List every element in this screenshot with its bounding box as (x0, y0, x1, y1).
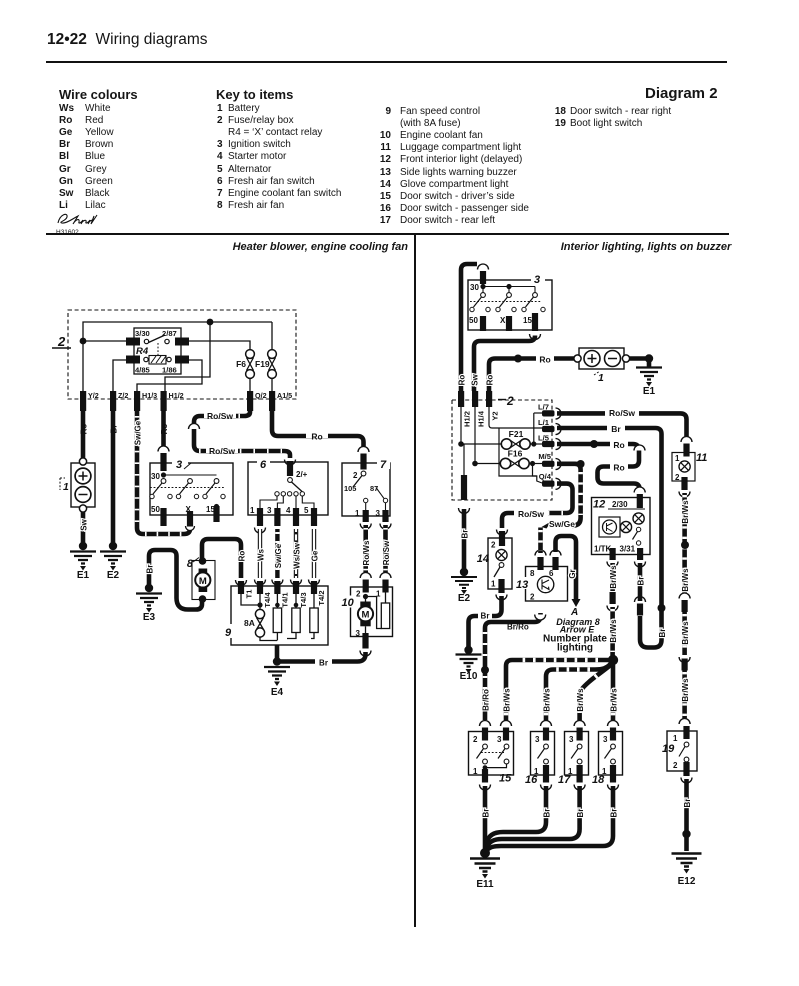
fresh air fan switch 6 (248, 457, 328, 515)
svg-text:F16: F16 (508, 449, 523, 459)
svg-text:6: 6 (260, 459, 267, 471)
svg-text:11: 11 (696, 452, 707, 464)
wire Br/Ws: lamp 11 to switch 19 (679, 477, 690, 724)
svg-text:3/31: 3/31 (620, 545, 636, 554)
svg-text:4: 4 (286, 506, 291, 515)
wire Br: switch 17 to E11 (487, 786, 585, 847)
wire Br/Ws: junction to switch 16-3 (541, 661, 614, 741)
svg-text:X: X (500, 316, 506, 325)
svg-text:13: 13 (516, 579, 528, 591)
svg-text:T4/3: T4/3 (299, 592, 308, 607)
svg-text:Ws: Ws (257, 548, 266, 561)
ignition switch 3 (150, 457, 233, 515)
svg-text:18: 18 (592, 774, 605, 786)
svg-text:17: 17 (558, 774, 571, 786)
wire Ro: A1/5 to coolant fan switch 7 (272, 411, 369, 470)
svg-text:Ro: Ro (613, 440, 624, 450)
svg-text:2/87: 2/87 (162, 329, 177, 338)
svg-text:3: 3 (497, 735, 502, 744)
page header (47, 31, 208, 49)
fuse F6 (236, 350, 254, 391)
svg-text:Br/Ws: Br/Ws (503, 688, 512, 712)
ground E2 (100, 542, 126, 581)
svg-text:L/1: L/1 (538, 418, 550, 427)
connector H1/4 (472, 391, 486, 427)
svg-text:1: 1 (598, 372, 604, 384)
connector M/5 (538, 452, 561, 470)
svg-text:2: 2 (673, 761, 678, 770)
svg-text:2: 2 (506, 394, 514, 408)
connector L/1 (538, 418, 561, 435)
terminal T4/1 (274, 581, 289, 608)
svg-text:2: 2 (491, 541, 496, 550)
wire Br: switch 15 to E11 (482, 786, 491, 851)
wire: L/7 L/1 L/5 bridge (531, 413, 542, 447)
svg-text:2/30: 2/30 (612, 500, 628, 509)
wire Sw: battery to E1 (80, 512, 89, 546)
svg-text:E1: E1 (643, 386, 656, 397)
wire Br/Ws: junction to switch 15-3 (501, 660, 614, 741)
svg-text:Br: Br (482, 809, 491, 818)
svg-text:3: 3 (569, 735, 574, 744)
svg-text:Ro: Ro (539, 355, 550, 365)
svg-text:E10: E10 (460, 671, 478, 682)
wire Sw: ignition 15 down (471, 334, 541, 391)
svg-text:2/+: 2/+ (296, 470, 308, 479)
svg-text:Br/Ws: Br/Ws (576, 688, 585, 712)
svg-text:50: 50 (151, 505, 160, 514)
svg-text:H1/4: H1/4 (477, 410, 486, 427)
svg-text:Br/Ro: Br/Ro (507, 623, 529, 632)
terminal 10-3 (360, 633, 371, 656)
svg-text:H1/2: H1/2 (169, 391, 184, 400)
fuse F21 (501, 429, 542, 449)
svg-text:Br: Br (610, 809, 619, 818)
svg-text:L/7: L/7 (538, 403, 549, 412)
svg-text:2: 2 (675, 473, 680, 482)
ground E11 (470, 848, 500, 890)
svg-text:Br/Ws: Br/Ws (681, 568, 690, 592)
connector L/5 (538, 434, 561, 450)
terminal 50 (right 3) (480, 316, 486, 331)
svg-text:50: 50 (469, 316, 478, 325)
svg-text:M/5: M/5 (538, 452, 551, 461)
connector Q/4 (539, 472, 561, 489)
svg-text:E2: E2 (458, 593, 471, 604)
battery 1 (right) (574, 348, 630, 384)
wire Ro: H1/2 to ignition 30 (158, 411, 169, 471)
svg-text:Y/2: Y/2 (88, 391, 99, 400)
terminal 12-1/TK (607, 548, 618, 567)
signature + code (54, 210, 114, 238)
svg-text:14: 14 (477, 553, 489, 565)
terminal 18-1 (608, 765, 619, 790)
ground E12 (672, 854, 702, 888)
fuse F16 (500, 449, 542, 477)
wire Br: 3/31 to loop (637, 563, 646, 601)
terminal T4/2 (311, 581, 326, 606)
terminal X (right 3) (506, 316, 512, 331)
svg-text:Ro: Ro (486, 375, 495, 386)
svg-text:15: 15 (499, 773, 512, 785)
ground E10 (456, 646, 482, 682)
wire Ro: feed to ignition 30 (458, 264, 489, 391)
svg-text:T4/4: T4/4 (263, 592, 272, 608)
wire Br: switch 19 to E12 (682, 779, 692, 851)
wire Sw/Ge: H1/3 to ignition X (134, 411, 195, 534)
svg-text:Br/Ws: Br/Ws (610, 688, 619, 712)
resistor pack in 9 (273, 594, 318, 641)
svg-text:30: 30 (151, 472, 160, 481)
svg-text:3: 3 (603, 735, 608, 744)
svg-text:Sw: Sw (80, 518, 89, 530)
terminal 13-6 (550, 550, 561, 570)
section frame (46, 233, 729, 235)
svg-text:1: 1 (673, 734, 678, 743)
svg-text:Q/2: Q/2 (255, 391, 267, 400)
terminal 15-1 (480, 769, 491, 790)
fan speed control 9 (224, 586, 328, 645)
svg-text:Br: Br (319, 659, 328, 668)
svg-text:Ro/Sw: Ro/Sw (382, 540, 391, 565)
svg-text:Ro: Ro (238, 551, 247, 562)
svg-text:Sw/Ge: Sw/Ge (274, 543, 283, 568)
luggage light 11 (672, 452, 707, 482)
svg-text:Gr: Gr (568, 569, 577, 578)
terminal 12-3/31 (635, 548, 646, 567)
fuse 8A (244, 609, 277, 640)
svg-text:Ro/Sw: Ro/Sw (609, 408, 635, 418)
ground E3 (136, 584, 162, 623)
svg-text:Br/Ws: Br/Ws (543, 688, 552, 712)
svg-text:1: 1 (491, 580, 496, 589)
wire Sw/Ge: switch 6-3 to T4/1 (272, 529, 283, 585)
wire Br/Ro: 13-2 to door switch 15 (480, 613, 546, 741)
ground E1 (right) (636, 354, 662, 397)
ground E4 (264, 657, 290, 698)
svg-text:A1/5: A1/5 (277, 391, 292, 400)
svg-text:Ro: Ro (311, 432, 322, 442)
terminal T4/3 (293, 581, 308, 608)
wire Br/Ws: 1/TK to junction (607, 563, 618, 656)
svg-text:30: 30 (470, 283, 479, 292)
ignition switch 3 (right) (468, 272, 552, 330)
svg-text:M: M (199, 576, 207, 587)
svg-text:2: 2 (356, 590, 361, 599)
svg-text:1: 1 (473, 767, 478, 776)
fuse/relay box 2 (right, dashed) (452, 400, 552, 500)
svg-text:2: 2 (353, 471, 358, 480)
terminal T4/4 (257, 581, 272, 608)
node: rail to H1/2 drop (165, 319, 213, 391)
fuse/relay box 2 (dashed enclosure) (68, 310, 296, 399)
svg-text:3: 3 (376, 509, 381, 518)
wire Br: L/1 long run to 3/31 loop (557, 424, 667, 648)
wire: battery to E1 (629, 356, 649, 361)
svg-text:15: 15 (523, 316, 532, 325)
terminal 14-1 (496, 579, 507, 600)
legend: wire colours (59, 87, 138, 102)
wire: relay 87 to fuse F6 (187, 341, 250, 350)
terminal 6-1 (257, 508, 263, 526)
wire Br/Ws: junction to switch 17-3 (574, 663, 613, 741)
wire Ro/Sw: switch 7-3 to fan 10 (380, 524, 391, 593)
svg-text:1: 1 (250, 506, 255, 515)
wire Ro/Sw: Q/4 to glove light 14 (497, 484, 573, 546)
svg-text:Br: Br (637, 577, 646, 586)
svg-text:Ro: Ro (80, 424, 89, 435)
svg-text:M: M (362, 610, 370, 621)
glove compartment light 14 (477, 538, 512, 589)
svg-text:1/TK: 1/TK (594, 545, 612, 554)
wire Br: switch 16 to E11 (487, 786, 552, 843)
svg-text:Sw: Sw (471, 373, 480, 385)
relay R4 (126, 328, 189, 375)
svg-text:3: 3 (535, 735, 540, 744)
svg-text:E11: E11 (476, 879, 494, 890)
svg-text:E12: E12 (678, 876, 696, 887)
wire Ro/Ws: switch 7-1 to fan 10 (360, 524, 371, 593)
svg-text:Br: Br (576, 809, 585, 818)
wire Ws/Sw: switch 6-4 to T4/3 (291, 529, 302, 585)
svg-text:Q/4: Q/4 (539, 472, 552, 481)
svg-text:T4/2: T4/2 (317, 590, 326, 605)
terminal 15 (213, 506, 219, 522)
coolant fan switch 7 (342, 458, 390, 518)
svg-text:12: 12 (593, 499, 605, 511)
door switch 17 (558, 732, 589, 787)
wire: relay 85 to Z/2 (113, 360, 126, 391)
svg-text:1: 1 (355, 509, 360, 518)
wire Ro: fan 8 to T1 (202, 539, 247, 586)
wire Ro: L/5 to interior light 12 (557, 440, 645, 509)
connector H1/2 (right) (458, 391, 472, 427)
wire: F19 feed from rail (271, 322, 273, 350)
battery 1 (60, 458, 95, 512)
terminal 15 (right 3) (532, 313, 538, 331)
svg-text:8: 8 (187, 558, 194, 570)
svg-text:4/85: 4/85 (135, 366, 151, 375)
node: rail to relay 30 feed (80, 338, 126, 345)
svg-text:Br/Ws: Br/Ws (681, 678, 690, 702)
connector Z/2 (110, 391, 128, 411)
terminal 6-3 (274, 508, 280, 526)
connector H1/2 (161, 391, 184, 411)
wire Br: switch 18 to E11 (487, 786, 619, 851)
svg-text:Br/Ws: Br/Ws (609, 619, 618, 643)
svg-text:Ro/Sw: Ro/Sw (209, 446, 235, 456)
svg-text:2: 2 (473, 735, 478, 744)
wire: H1/4 to F16 (472, 407, 500, 466)
svg-text:Br: Br (543, 809, 552, 818)
ground E1 (70, 542, 96, 581)
wire Sw/Ge stub into 13-8 (538, 528, 543, 554)
svg-text:Ro/Sw: Ro/Sw (518, 509, 544, 519)
terminal 17-1 (574, 765, 585, 790)
svg-text:6: 6 (549, 569, 554, 578)
svg-text:R4: R4 (136, 346, 149, 357)
svg-text:Br: Br (683, 799, 692, 808)
wire Br: fan 10 to E4 (277, 652, 366, 668)
svg-text:16: 16 (525, 774, 538, 786)
svg-text:H1/3: H1/3 (142, 391, 157, 400)
wire: tap to Br ground lead (463, 444, 465, 475)
svg-text:Ro/Sw: Ro/Sw (207, 411, 233, 421)
connector Y2 (486, 391, 500, 421)
svg-text:Ro/Ws: Ro/Ws (362, 540, 371, 565)
svg-text:1: 1 (675, 454, 680, 463)
svg-text:Br: Br (110, 425, 119, 434)
svg-text:3: 3 (267, 506, 272, 515)
terminal 6-5 (311, 508, 317, 526)
svg-text:10: 10 (342, 597, 355, 609)
wire: bus-bar rail inside fuse box (83, 322, 272, 391)
svg-text:3: 3 (534, 274, 540, 286)
terminal 6-4 (293, 508, 299, 526)
svg-text:Sw/Ge: Sw/Ge (549, 519, 575, 529)
terminal 7-1 (363, 510, 369, 522)
svg-text:E4: E4 (271, 687, 284, 698)
svg-text:Ro: Ro (160, 424, 169, 435)
svg-text:E3: E3 (143, 612, 156, 623)
connector H1/3 (134, 391, 157, 411)
svg-text:3/30: 3/30 (135, 329, 150, 338)
svg-text:H1/2: H1/2 (463, 411, 472, 427)
wire Ro/Sw: Q/2 to fan switch 6 (189, 409, 296, 476)
label 2 (right) (498, 394, 514, 408)
terminal 7-3 (382, 510, 388, 522)
svg-text:Br: Br (611, 424, 621, 434)
interior light 12 (592, 498, 651, 555)
svg-text:Br/Ws: Br/Ws (609, 565, 618, 589)
fresh air fan 8 (motor) (187, 557, 215, 603)
wire Ro: battery feed (486, 353, 575, 391)
svg-text:Sw/Ge: Sw/Ge (134, 420, 143, 445)
svg-text:Br: Br (481, 612, 490, 621)
svg-text:F21: F21 (509, 429, 524, 439)
wire Br: Z/2 to E2 (110, 411, 119, 546)
wire: T1 to 8A fuse (241, 594, 263, 609)
svg-text:Br/Ro: Br/Ro (482, 689, 491, 711)
svg-text:Br: Br (461, 530, 470, 539)
wire Br/Ws: junction to switch 18-3 (608, 664, 619, 741)
svg-text:T1: T1 (245, 589, 254, 599)
boot light switch 19 (662, 726, 697, 771)
svg-text:5: 5 (304, 506, 309, 515)
svg-text:E1: E1 (77, 570, 90, 581)
side lights warning buzzer 13 (513, 567, 568, 602)
svg-text:Br: Br (658, 629, 667, 638)
door switch 18 (592, 732, 623, 787)
fuse F19 (255, 350, 276, 391)
terminal 16-1 (541, 765, 552, 790)
svg-text:Ws/Sw: Ws/Sw (293, 542, 302, 569)
wire: unit 9 to E4 (275, 645, 280, 662)
svg-text:T4/1: T4/1 (281, 592, 290, 608)
door switch 15 (469, 732, 514, 785)
svg-text:1: 1 (63, 481, 69, 493)
label 2 (52, 334, 71, 349)
terminal 19-2 (681, 762, 692, 783)
terminal T1 (238, 581, 254, 598)
svg-text:Br/Ws: Br/Ws (681, 621, 690, 645)
terminal 13-8 (535, 550, 546, 570)
wire Ge: switch 6-5 to T4/2 (309, 529, 320, 585)
svg-text:19: 19 (662, 743, 675, 755)
svg-text:lighting: lighting (557, 643, 593, 654)
junction: number plate feed (608, 655, 618, 665)
wire: Y2 bracket to Q/4 (489, 407, 542, 483)
svg-text:Z/2: Z/2 (118, 391, 128, 400)
wire Br: lamp 14 to E10 (469, 596, 502, 648)
terminal X (187, 511, 193, 527)
svg-text:F6: F6 (236, 359, 246, 369)
connector A1/5 (269, 391, 292, 411)
svg-text:7: 7 (380, 459, 387, 471)
svg-text:8A: 8A (244, 618, 255, 628)
engine coolant fan 10 (341, 587, 393, 638)
terminal 50 (160, 508, 166, 526)
wire Ro: Y/2 to battery (80, 411, 89, 460)
wire Br: fuse box to E2 (right) (459, 475, 470, 571)
svg-text:Br/Ws: Br/Ws (681, 500, 690, 524)
wire Sw/Ge: M/5 down (542, 460, 585, 529)
svg-text:9: 9 (225, 627, 232, 639)
door switch 16 (525, 732, 555, 787)
svg-text:105: 105 (344, 484, 356, 493)
svg-text:2: 2 (57, 334, 66, 349)
note: diagram 8 arrow E (543, 607, 607, 654)
svg-text:3: 3 (356, 629, 361, 638)
connector Y/2 (80, 391, 99, 411)
wire: relay 86 to H1/3 (137, 360, 202, 391)
wire Br: fan 8 to E3 (146, 550, 203, 610)
wire Gr: 13-6 to arrow A (556, 536, 581, 607)
svg-text:Ge: Ge (311, 550, 320, 561)
svg-text:Ro: Ro (458, 375, 467, 386)
ground E2 (right) (451, 568, 477, 604)
key to items (216, 87, 293, 102)
svg-text:2: 2 (530, 593, 535, 602)
svg-text:3: 3 (176, 459, 182, 471)
svg-text:Y2: Y2 (491, 411, 500, 420)
svg-text:F19: F19 (255, 359, 270, 369)
connector Q/2 (247, 391, 267, 411)
connector L/7 (538, 403, 561, 420)
wire: H1/2 to F21 (458, 407, 501, 447)
svg-text:Ro: Ro (613, 463, 624, 473)
wire Ro/Sw: L/7 to lamp 11 (557, 408, 692, 457)
svg-text:8: 8 (530, 569, 535, 578)
svg-text:1/86: 1/86 (162, 366, 177, 375)
wire Ws: switch 6-1 to T4/4 (255, 528, 266, 586)
svg-text:Br: Br (146, 565, 155, 574)
svg-text:E2: E2 (107, 570, 120, 581)
